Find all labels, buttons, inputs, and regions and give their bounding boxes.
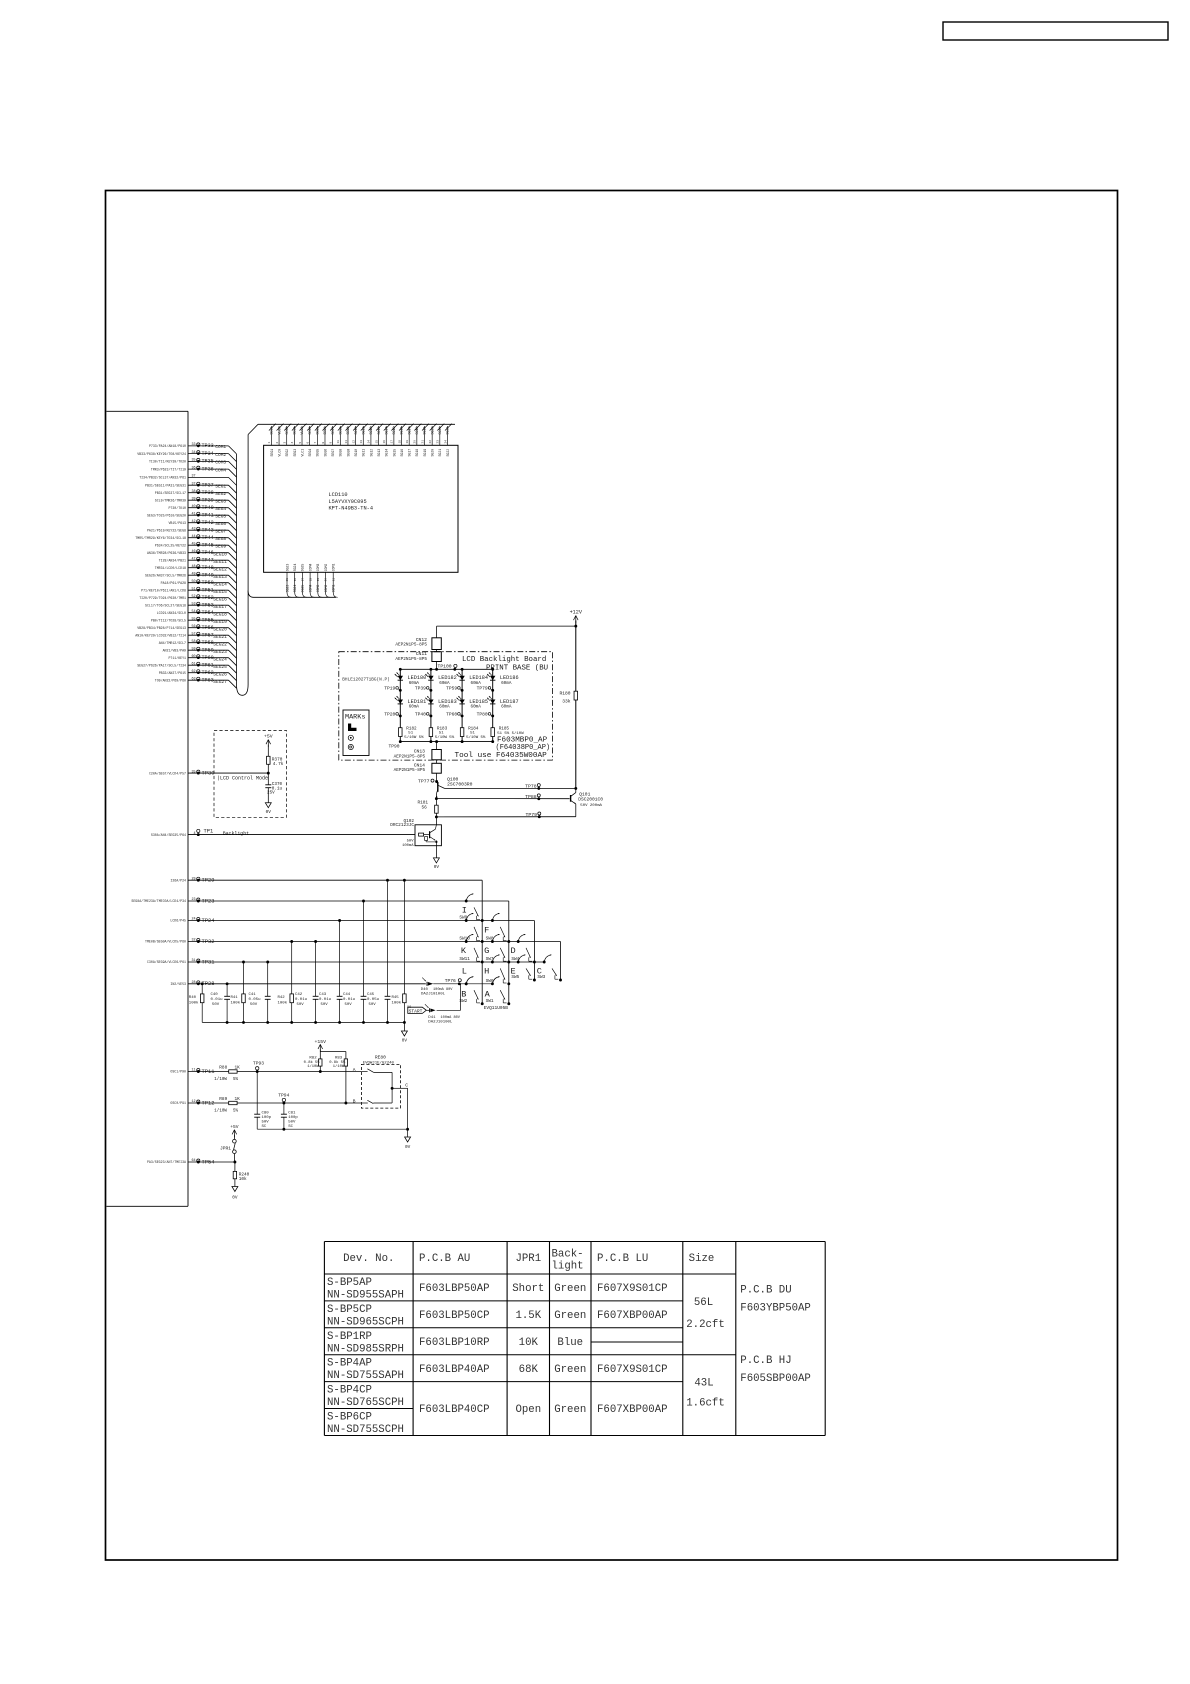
svg-text:+12V: +12V [570, 610, 583, 616]
svg-text:COM2: COM2 [324, 585, 328, 593]
svg-text:49: 49 [192, 572, 196, 576]
svg-text:SEG7: SEG7 [215, 528, 226, 534]
svg-text:Backlight: Backlight [223, 830, 249, 836]
LCD top pin 16 [383, 424, 391, 457]
resistor R240 10k [233, 1162, 249, 1187]
svg-text:TP51: TP51 [202, 588, 214, 594]
svg-text:45: 45 [192, 542, 196, 546]
svg-text:44: 44 [192, 535, 196, 539]
svg-text:TP53: TP53 [202, 603, 214, 609]
pin 24 TP24 [170, 918, 534, 924]
svg-text:SEG8: SEG8 [339, 449, 343, 457]
LCD Control Mode dashed box [214, 731, 287, 818]
svg-text:TP42: TP42 [202, 520, 214, 526]
svg-text:SG14: SG14 [384, 427, 388, 435]
svg-text:F607XBP00AP: F607XBP00AP [597, 1310, 668, 1322]
svg-text:29: 29 [317, 578, 320, 582]
svg-text:41: 41 [192, 512, 196, 516]
svg-text:AEP2N1P5-8P5: AEP2N1P5-8P5 [395, 657, 427, 662]
svg-text:TP93: TP93 [253, 1061, 264, 1067]
svg-text:VB15/P613: VB15/P613 [168, 521, 186, 525]
wire START to TP28 line [437, 1009, 461, 1011]
svg-text:SG16: SG16 [400, 427, 404, 435]
svg-text:NN-SD765SCPH: NN-SD765SCPH [327, 1397, 404, 1409]
svg-text:R183: R183 [437, 726, 448, 731]
LCD top pin 19 [406, 424, 414, 457]
svg-text:1.5K: 1.5K [515, 1310, 541, 1322]
LED LED181 [395, 696, 426, 710]
svg-text:MARKs: MARKs [345, 714, 365, 722]
pin 37 TP37 SEG1 [145, 482, 236, 493]
svg-text:TP37: TP37 [202, 483, 214, 489]
LCD top pin 14 [368, 424, 376, 457]
svg-text:TP80: TP80 [477, 711, 488, 717]
svg-text:COM4: COM4 [308, 585, 312, 593]
svg-text:51: 51 [192, 587, 196, 591]
svg-text:TMR31/LCD0/LCD18: TMR31/LCD0/LCD18 [155, 566, 186, 570]
svg-text:IN2/VE53: IN2/VE53 [170, 982, 186, 986]
svg-text:R182: R182 [406, 726, 417, 731]
switch SW5 key E [511, 954, 536, 981]
svg-text:TI20/P729/TO24/P630/TMR1: TI20/P729/TO24/P630/TMR1 [139, 596, 186, 600]
svg-text:TP56: TP56 [202, 625, 214, 631]
resistor R41 100k [231, 961, 246, 1023]
resistor R370 4.7k [267, 756, 284, 767]
svg-text:Tool use F64035W00AP: Tool use F64035W00AP [455, 752, 548, 760]
svg-text:SG14: SG14 [385, 449, 389, 457]
table Backlight column [554, 1283, 586, 1416]
LED column 4 wire [492, 669, 494, 741]
wire CN13-CN14 [436, 760, 438, 764]
LCD top pin 23 [437, 424, 445, 457]
svg-text:50V: 50V [369, 1003, 377, 1007]
test point TP59 [446, 685, 463, 691]
pin 47 TP47 SEG11 [159, 557, 237, 568]
pin 59 TP59 SEG23 [163, 647, 237, 658]
svg-text:TP52: TP52 [202, 595, 214, 601]
svg-text:59: 59 [192, 647, 196, 651]
svg-text:P.C.B DU: P.C.B DU [740, 1285, 791, 1297]
wire fan diagonal [229, 508, 237, 516]
LCD top pin 4 [291, 424, 299, 457]
svg-text:RE80: RE80 [375, 1055, 386, 1061]
svg-text:S-BP6CP: S-BP6CP [327, 1412, 372, 1424]
svg-text:TP30: TP30 [202, 770, 215, 776]
wire fan diagonal [229, 515, 237, 523]
pin 61 TP61 SEG25 [137, 662, 236, 673]
svg-text:Blue: Blue [557, 1337, 583, 1349]
svg-text:light: light [552, 1261, 584, 1273]
svg-text:60mA: 60mA [501, 681, 512, 686]
svg-text:SG11: SG11 [362, 449, 366, 457]
LED LED185 [457, 696, 488, 710]
svg-text:S-BP4CP: S-BP4CP [327, 1385, 372, 1397]
svg-text:SEG27/P626/PA17/SCL5/TI34: SEG27/P626/PA17/SCL5/TI34 [137, 663, 186, 667]
svg-text:Dev. No.: Dev. No. [343, 1253, 394, 1265]
svg-text:56: 56 [422, 805, 428, 810]
svg-text:I: I [462, 906, 467, 916]
svg-text:P711/KEY1: P711/KEY1 [168, 656, 186, 660]
svg-text:PA3/SEG23/AN7/TMEI3A: PA3/SEG23/AN7/TMEI3A [147, 1160, 186, 1164]
svg-text:VB33/P638/KEY26/TO8/KEY24: VB33/P638/KEY26/TO8/KEY24 [137, 452, 186, 456]
LCD bottom pin 29 [316, 564, 322, 598]
svg-text:SEG24: SEG24 [213, 656, 227, 662]
svg-text:TP35: TP35 [202, 459, 214, 465]
svg-text:1/10W: 1/10W [307, 1064, 319, 1069]
svg-text:0.01u: 0.01u [211, 998, 224, 1002]
wire fan diagonal [229, 461, 237, 469]
svg-text:TP43: TP43 [202, 528, 214, 534]
svg-text:2SC7003R0: 2SC7003R0 [447, 782, 473, 788]
svg-text:C20A/SEG7/VLCD4/P57: C20A/SEG7/VLCD4/P57 [149, 771, 186, 775]
wire fan diagonal [229, 583, 237, 591]
IC U1 box [107, 410, 189, 412]
svg-text:54: 54 [192, 610, 196, 614]
pin 45 TP45 SEG9 [155, 542, 237, 553]
svg-text:TP55: TP55 [202, 618, 214, 624]
svg-text:3: 3 [284, 442, 287, 444]
svg-text:NN-SD955SAPH: NN-SD955SAPH [327, 1290, 404, 1302]
svg-text:R180: R180 [559, 691, 570, 697]
switch SW7 key G [484, 934, 510, 964]
svg-text:P730/TO10: P730/TO10 [168, 506, 186, 510]
pin 33 TP33 COM1 [149, 443, 237, 454]
svg-text:SEG9: SEG9 [215, 543, 226, 549]
svg-text:SG22: SG22 [446, 449, 450, 457]
svg-text:TP60: TP60 [446, 711, 457, 717]
svg-text:D40: D40 [421, 988, 429, 992]
svg-text:33: 33 [192, 443, 196, 447]
LED column 3 wire [461, 669, 463, 741]
svg-text:63: 63 [192, 677, 196, 681]
svg-text:PA18/P61/PA28: PA18/P61/PA28 [161, 581, 186, 585]
pin 51 TP51 SEG15 [141, 587, 236, 598]
svg-text:TP39: TP39 [415, 685, 426, 691]
jumper JPR1 [220, 1139, 236, 1162]
svg-text:SW3: SW3 [537, 975, 545, 980]
svg-text:|LCD Control Mode: |LCD Control Mode [217, 775, 268, 781]
svg-text:SG25: SG25 [301, 564, 305, 572]
switch SW11 key K [459, 934, 483, 964]
svg-text:COM2: COM2 [324, 564, 328, 572]
svg-text:AN4/TMR12/SCL7: AN4/TMR12/SCL7 [159, 641, 186, 645]
svg-text:VLC0: VLC0 [277, 449, 281, 457]
svg-text:SEG4: SEG4 [308, 427, 312, 435]
svg-text:SG15: SG15 [392, 427, 396, 435]
svg-text:TP33: TP33 [202, 443, 214, 449]
svg-text:COM1: COM1 [215, 444, 226, 450]
svg-text:34: 34 [192, 451, 196, 455]
svg-text:40: 40 [192, 505, 196, 509]
model table grid [324, 1242, 825, 1436]
svg-text:TP49: TP49 [202, 573, 214, 579]
svg-text:5/10W 5%: 5/10W 5% [435, 735, 455, 740]
svg-text:OSC1/P90: OSC1/P90 [170, 1070, 186, 1074]
wire fan diagonal [229, 485, 237, 493]
svg-text:F603LBP50AP: F603LBP50AP [419, 1283, 490, 1295]
svg-text:C44: C44 [343, 993, 351, 997]
svg-text:SEG14: SEG14 [213, 581, 227, 587]
svg-text:SG13: SG13 [377, 427, 381, 435]
svg-text:TO9/AN22/P69/P60: TO9/AN22/P69/P60 [155, 678, 186, 682]
svg-text:22: 22 [429, 440, 432, 444]
svg-text:F607X9S01CP: F607X9S01CP [597, 1364, 668, 1376]
svg-text:23: 23 [192, 898, 196, 902]
svg-text:COM4: COM4 [215, 467, 226, 473]
resistor R83 0.8k [329, 1056, 347, 1103]
resistor R182 51ohm [399, 726, 425, 740]
pin 31 TP31 [147, 959, 544, 965]
svg-text:Green: Green [554, 1404, 586, 1416]
svg-text:26: 26 [294, 578, 297, 582]
svg-text:Short: Short [512, 1283, 544, 1295]
svg-text:68K: 68K [519, 1364, 539, 1376]
LCD LCD110 box [264, 445, 458, 572]
svg-text:TP20: TP20 [384, 711, 395, 717]
svg-text:33k: 33k [562, 699, 571, 705]
svg-text:TP61: TP61 [202, 663, 214, 669]
svg-text:1/10W: 1/10W [333, 1064, 345, 1069]
svg-text:A: A [353, 1067, 356, 1073]
connector CN12 AEP2N1P5-8P5 [395, 637, 441, 650]
svg-text:TP88: TP88 [525, 794, 537, 800]
pin 62 TP62 SEG26 [159, 670, 237, 681]
svg-text:SEG5: SEG5 [316, 427, 320, 435]
svg-text:PB0/TI12/TO28/SCL5: PB0/TI12/TO28/SCL5 [151, 618, 186, 622]
svg-text:SG10: SG10 [354, 427, 358, 435]
svg-text:OSC0/P91: OSC0/P91 [170, 1101, 186, 1105]
svg-text:10: 10 [337, 440, 340, 444]
svg-text:SEG11: SEG11 [213, 559, 227, 565]
svg-text:AEP2N1P5-8P5: AEP2N1P5-8P5 [394, 768, 426, 773]
svg-text:SG17: SG17 [407, 427, 411, 435]
wire TP88 line [435, 797, 438, 800]
svg-text:60mA: 60mA [409, 681, 420, 686]
test point TP80 [477, 711, 494, 717]
pin 38 TP38 SEG2 [155, 490, 237, 501]
LCD Backlight Board dashed outline [339, 652, 553, 760]
svg-text:SEG2: SEG2 [285, 427, 289, 435]
wire fan diagonal [229, 454, 237, 462]
svg-text:H: H [484, 967, 489, 977]
svg-text:NN-SD985SRPH: NN-SD985SRPH [327, 1343, 404, 1355]
svg-text:B: B [353, 1099, 356, 1105]
pin 43 TP43 SEG7 [147, 527, 237, 538]
svg-text:60mA: 60mA [501, 705, 512, 710]
wire fan diagonal [229, 493, 237, 501]
svg-text:C81: C81 [288, 1112, 296, 1116]
switch SW9 key I [459, 893, 483, 922]
svg-text:P733/PA24/AN18/P610: P733/PA24/AN18/P610 [149, 444, 186, 448]
svg-text:F603LBP10RP: F603LBP10RP [419, 1337, 490, 1349]
svg-text:AN10/KEY29/LCD32/VB12/TI14: AN10/KEY29/LCD32/VB12/TI14 [135, 633, 186, 637]
svg-text:PRINT BASE (BU: PRINT BASE (BU [486, 665, 548, 673]
wire fan diagonal [229, 446, 237, 454]
svg-text:0V: 0V [402, 1039, 408, 1044]
svg-text:SEG8A/TME23A/TMEC0A/LCD4/P34: SEG8A/TME23A/TMEC0A/LCD4/P34 [131, 899, 186, 903]
svg-text:JPR1: JPR1 [220, 1145, 231, 1151]
svg-text:COM3: COM3 [316, 564, 320, 572]
svg-text:31: 31 [192, 959, 196, 963]
svg-text:S30A/AN4/SEG35/P64: S30A/AN4/SEG35/P64 [151, 833, 186, 837]
MARKs legend box [343, 710, 369, 756]
svg-text:SEG20: SEG20 [213, 626, 227, 632]
pin 32 TP32 [145, 939, 560, 945]
svg-text:R184: R184 [468, 726, 479, 731]
LED LED184 [457, 672, 488, 686]
wire TP12 line to encoder B [237, 1102, 361, 1104]
test point TP78 [525, 784, 540, 790]
svg-text:60mA: 60mA [471, 705, 482, 710]
LCD top pin 2 [276, 424, 284, 457]
LCD bottom pin 27 [301, 564, 307, 598]
wire fan diagonal [229, 530, 237, 538]
svg-text:TP54: TP54 [202, 610, 214, 616]
svg-text:SG16: SG16 [400, 449, 404, 457]
svg-text:NN-SD755SCPH: NN-SD755SCPH [327, 1424, 404, 1436]
ground (control mode) [265, 803, 271, 808]
table headers [343, 1249, 714, 1273]
pin 46 TP46 SEG10 [147, 550, 237, 561]
svg-text:0V: 0V [232, 1196, 238, 1201]
wire fan diagonal [229, 620, 237, 628]
svg-text:50V 200mA: 50V 200mA [580, 804, 602, 808]
wire fan diagonal [229, 658, 237, 666]
connector CN14 AEP2N1P5-8P5 [394, 762, 442, 773]
svg-text:SEG7: SEG7 [331, 449, 335, 457]
wire TP32 column [560, 942, 562, 981]
wire fan diagonal [229, 643, 237, 651]
svg-text:58: 58 [192, 640, 196, 644]
LCD bottom pin 26 [293, 564, 299, 598]
svg-text:TP38: TP38 [202, 490, 214, 496]
svg-text:17: 17 [391, 440, 394, 444]
test point TP77 [418, 779, 438, 785]
svg-text:28: 28 [192, 981, 196, 985]
svg-text:TP45: TP45 [202, 543, 214, 549]
svg-text:SG23: SG23 [285, 564, 289, 572]
wire TP23 column [508, 901, 510, 1004]
test point TP88 [525, 794, 540, 800]
wire LED rail to CN13 [436, 742, 438, 750]
LCD top pin 1 [268, 424, 276, 457]
svg-text:SEG9: SEG9 [346, 449, 350, 457]
test point TP93 [253, 1061, 264, 1073]
svg-text:50V: 50V [212, 1003, 220, 1007]
svg-text:4.7k: 4.7k [273, 762, 284, 767]
svg-text:60mA: 60mA [439, 705, 450, 710]
svg-text:SG24: SG24 [293, 564, 297, 572]
wire LED bottom rail [400, 741, 492, 743]
test point TP79 [477, 685, 494, 691]
svg-text:P634/SCL25/KEY22: P634/SCL25/KEY22 [155, 543, 186, 547]
LCD bottom pin 25 [285, 564, 291, 598]
svg-text:13: 13 [360, 440, 363, 444]
pin 40 TP40 SEG4 [168, 505, 236, 516]
wire CN11 to LED rail [436, 662, 438, 670]
svg-text:C30A/SEG9A/VLCD6/P61: C30A/SEG9A/VLCD6/P61 [147, 960, 186, 964]
net flag START [408, 1007, 427, 1014]
svg-text:K: K [461, 946, 467, 956]
svg-text:0.8k 5%: 0.8k 5% [304, 1060, 321, 1065]
svg-text:0.01u: 0.01u [343, 998, 356, 1002]
svg-text:SEG21: SEG21 [213, 634, 227, 640]
LCD top pin 8 [322, 424, 330, 457]
LCD top pin 22 [429, 424, 437, 457]
svg-text:100k: 100k [278, 1001, 288, 1006]
svg-text:0V: 0V [266, 810, 272, 815]
svg-text:TP47: TP47 [202, 558, 214, 564]
svg-text:51: 51 [408, 732, 413, 736]
svg-text:SEG4: SEG4 [308, 449, 312, 457]
svg-text:PB31/SEG37/SCL17: PB31/SEG37/SCL17 [155, 491, 186, 495]
svg-text:0.8k 5%: 0.8k 5% [329, 1060, 346, 1065]
pin 48 TP48 SEG12 [155, 565, 237, 576]
svg-text:Green: Green [554, 1364, 586, 1376]
svg-text:43L: 43L [694, 1378, 713, 1390]
ground (encoder) [407, 1129, 409, 1137]
svg-text:1/10W: 1/10W [214, 1077, 227, 1082]
svg-text:(F64038P0_AP): (F64038P0_AP) [496, 744, 551, 752]
svg-text:D: D [511, 946, 516, 956]
svg-text:TP76: TP76 [445, 978, 456, 984]
wire LED top rail [400, 668, 492, 670]
wire fan diagonal [229, 538, 237, 546]
wire fan diagonal [229, 665, 237, 673]
test point TP20 [384, 711, 401, 717]
svg-text:SEG22: SEG22 [213, 641, 227, 647]
wire fan diagonal [229, 613, 237, 621]
connector CN13 AEP2N1P5-8P5 [394, 749, 442, 760]
svg-text:SEG5: SEG5 [316, 449, 320, 457]
transistor Q102 DRC2123JC [390, 817, 441, 848]
svg-text:48: 48 [192, 565, 196, 569]
svg-text:5%: 5% [233, 1078, 239, 1082]
svg-text:F603LBP50CP: F603LBP50CP [419, 1310, 490, 1322]
svg-text:PA21/P619/KEY22/SEG8: PA21/P619/KEY22/SEG8 [147, 528, 186, 532]
svg-text:SG17: SG17 [408, 449, 412, 457]
svg-text:SG23: SG23 [285, 585, 289, 593]
svg-text:18: 18 [398, 440, 401, 444]
svg-text:TP40: TP40 [415, 711, 426, 717]
svg-text:TP41: TP41 [202, 513, 214, 519]
svg-text:2.2cft: 2.2cft [686, 1319, 724, 1331]
svg-text:SEG3: SEG3 [293, 427, 297, 435]
svg-text:D41: D41 [428, 1016, 436, 1020]
svg-text:SG10: SG10 [354, 449, 358, 457]
svg-text:50V: 50V [407, 839, 415, 843]
test point TP79 [525, 812, 540, 818]
svg-text:BHLE12027T1BG(N.P): BHLE12027T1BG(N.P) [342, 677, 389, 682]
svg-text:C45: C45 [367, 993, 375, 997]
svg-text:VLC1: VLC1 [300, 427, 304, 435]
svg-text:R45: R45 [392, 996, 400, 1000]
svg-text:0.05u: 0.05u [249, 998, 262, 1002]
svg-text:Green: Green [554, 1283, 586, 1295]
svg-text:LCD6/P45: LCD6/P45 [170, 919, 186, 923]
resistor R88 1K [214, 1066, 240, 1082]
svg-text:6: 6 [306, 442, 309, 444]
svg-text:G: G [484, 946, 489, 956]
pin 11 TP11 [170, 1069, 228, 1075]
wire RC bank bottom rail [202, 1021, 404, 1023]
LCD top pin 15 [375, 424, 383, 457]
svg-text:50V: 50V [262, 1121, 270, 1125]
table Size column [686, 1297, 724, 1410]
wire fan diagonal [229, 500, 237, 508]
wire fan diagonal [229, 635, 237, 643]
wire fan diagonal [229, 469, 237, 477]
